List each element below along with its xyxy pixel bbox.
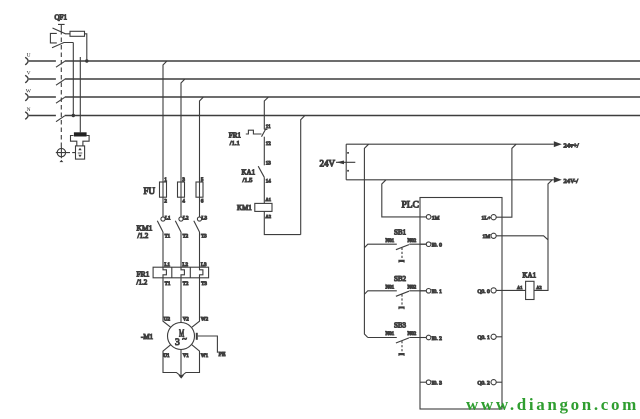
svg-text:V2: V2 (183, 318, 190, 323)
svg-text:W2: W2 (201, 318, 209, 323)
relay contact KA1 (242, 166, 265, 184)
wire PLC 1M right to 24V- return (496, 236, 548, 240)
breaker QF1 pole contact V (56, 79, 65, 85)
svg-text:QF1: QF1 (55, 14, 68, 22)
relay coil KA1 (517, 272, 542, 300)
svg-text:2: 2 (164, 200, 167, 205)
wire from QF1 release box to U line (85, 34, 87, 61)
svg-text:FU: FU (144, 186, 156, 196)
fuse FU label (144, 186, 156, 196)
PLC input terminal I0.2 (420, 335, 442, 342)
svg-text:6: 6 (201, 200, 204, 205)
svg-text:~: ~ (182, 334, 187, 344)
svg-text:KA1: KA1 (242, 169, 256, 177)
svg-text:SB1: SB1 (394, 229, 407, 237)
svg-text:A2: A2 (266, 214, 272, 219)
pushbutton SB1 (364, 229, 426, 263)
svg-text:1L+: 1L+ (482, 216, 491, 222)
svg-text:/1.1: /1.1 (230, 140, 240, 147)
svg-text:N02: N02 (408, 239, 417, 244)
branch 24V+ to PLC 1L+ (496, 144, 516, 217)
power supply 24V (320, 144, 356, 180)
wire from QF1 auxiliary contact to N line (72, 43, 74, 116)
svg-text:I0. 2: I0. 2 (432, 336, 442, 342)
fuse FU pole 1 (160, 178, 168, 205)
branch 24V+ to pushbutton rail (364, 144, 368, 337)
watermark www.diangon.com (466, 395, 639, 414)
wire Q0.0 to KA1 coil (496, 289, 525, 291)
svg-text:V: V (27, 71, 31, 77)
svg-text:N02: N02 (408, 332, 417, 337)
surge arrester body box (76, 146, 85, 159)
svg-text:L1: L1 (165, 217, 171, 222)
svg-text:www.diangon.com: www.diangon.com (466, 395, 639, 414)
svg-text:PLC: PLC (402, 201, 419, 211)
svg-text:SB3: SB3 (394, 322, 407, 330)
motor winding lead U1 (163, 345, 181, 377)
wire FR1 to motor V2 (181, 278, 189, 323)
svg-text:T2: T2 (183, 234, 189, 239)
wire FR1 to motor W2 (192, 278, 209, 327)
wire U phase line (29, 60, 640, 62)
motor M1 (168, 323, 195, 350)
svg-text:-M1: -M1 (141, 333, 154, 341)
contactor KM1 contact pole 3 (194, 217, 208, 240)
svg-text:N01: N01 (386, 239, 395, 244)
svg-text:L2: L2 (182, 263, 188, 268)
svg-text:FR1: FR1 (137, 270, 150, 279)
svg-text:SB2: SB2 (394, 275, 407, 283)
FR1 heater element 3 (200, 263, 208, 287)
svg-text:V1: V1 (183, 354, 190, 359)
svg-text:Q0. 2: Q0. 2 (478, 381, 490, 387)
wire to surge arrester (79, 57, 81, 132)
svg-text:N: N (27, 107, 31, 113)
wire N line to control return (301, 116, 305, 235)
wire KM1 to FR1 pole2 (180, 232, 182, 267)
pushbutton SB3 (368, 322, 427, 356)
pointer below mechanism (60, 160, 64, 162)
PLC box (402, 198, 503, 410)
svg-text:L3: L3 (202, 217, 208, 222)
svg-text:U1: U1 (163, 354, 170, 359)
wire fuse3 to KM1 (199, 197, 201, 217)
svg-text:N01: N01 (386, 332, 395, 337)
breaker QF1 label (55, 14, 68, 22)
branch from W line to control circuit (264, 97, 268, 129)
wire N neutral line (29, 115, 640, 117)
wire 24V+ rail (346, 143, 554, 145)
svg-text:I0. 0: I0. 0 (432, 243, 442, 249)
KM1 coil terminal A1 (266, 197, 272, 202)
svg-text:24V: 24V (320, 159, 336, 169)
svg-text:4: 4 (182, 200, 185, 205)
svg-text:Q0. 1: Q0. 1 (478, 335, 490, 341)
PLC input terminal 1M (426, 215, 439, 222)
svg-text:T2: T2 (183, 282, 189, 287)
fuse FU pole 3 (196, 178, 204, 205)
svg-text:12: 12 (266, 142, 272, 147)
thermal relay FR1 label (137, 270, 150, 287)
branch from U line to fuse 1 (163, 61, 167, 182)
PLC output terminal 1L+ (482, 215, 497, 222)
breaker QF1 pole contact U (56, 61, 65, 67)
svg-text:T1: T1 (165, 282, 171, 287)
motor PE terminal (197, 333, 226, 358)
svg-text:KM1: KM1 (237, 204, 252, 212)
svg-text:U: U (27, 53, 31, 59)
thermal relay FR1 box (153, 267, 209, 278)
svg-text:L2: L2 (183, 217, 189, 222)
svg-text:I0. 3: I0. 3 (432, 381, 442, 387)
PLC input terminal I0.3 (420, 380, 442, 387)
svg-text:1M: 1M (483, 234, 491, 240)
branch 24V- to KA1 return (534, 180, 552, 291)
svg-text:L3: L3 (201, 263, 207, 268)
wire V phase line (29, 78, 640, 80)
node W supply arrow (25, 89, 32, 101)
svg-text:PE: PE (219, 352, 226, 358)
junction dot on N line (72, 114, 75, 117)
svg-text:24V-/: 24V-/ (564, 178, 579, 185)
PLC input terminal I0.1 (420, 289, 442, 296)
svg-text:24v+/: 24v+/ (564, 143, 579, 150)
svg-text:N02: N02 (408, 286, 417, 291)
svg-text:T1: T1 (165, 234, 171, 239)
surge arrester yoke (71, 136, 90, 146)
motor tag -M1 (141, 333, 154, 341)
svg-text:W: W (26, 89, 32, 95)
FR1 NC contact terminal 11 (266, 125, 271, 130)
motor winding lead W1 (181, 345, 208, 377)
breaker QF1 main contact (53, 28, 71, 34)
FR1 heater element 2 (181, 263, 189, 287)
junction dot on U line (85, 59, 88, 62)
wire fuse2 to KM1 (180, 197, 182, 217)
svg-text:/1.2: /1.2 (138, 232, 149, 240)
contactor KM1 contact pole 2 (175, 217, 189, 240)
PLC input terminal I0.0 (420, 242, 442, 249)
svg-text:L1: L1 (164, 263, 170, 268)
wire FR1 to motor U2 (163, 278, 171, 327)
motor winding lead V1 (181, 350, 189, 377)
svg-text:W1: W1 (201, 354, 209, 359)
branch from V line to fuse 2 (181, 79, 185, 182)
node U supply arrow (25, 53, 30, 65)
branch 24V- to PLC 1M input (382, 180, 427, 217)
wire fuse1 to KM1 (162, 197, 164, 217)
breaker QF1 pole contact W (56, 97, 65, 103)
contactor KM1 contact pole 1 (157, 217, 171, 240)
contactor KM1 label (137, 224, 153, 241)
wire KM1 to FR1 pole1 (162, 232, 164, 267)
arrow 24v+ off-page (554, 141, 579, 149)
svg-text:3: 3 (175, 338, 180, 348)
breaker QF1 auxiliary contact (52, 43, 73, 48)
breaker QF1 pole contact N (56, 116, 65, 122)
svg-text:T3: T3 (201, 234, 207, 239)
svg-text:U2: U2 (164, 318, 171, 323)
svg-text:A1: A1 (266, 197, 272, 202)
breaker QF1 trip actuator (58, 24, 65, 30)
svg-text:14: 14 (266, 180, 272, 185)
svg-text:1M: 1M (432, 215, 440, 221)
KM1 coil terminal A2 (266, 214, 272, 219)
svg-text:T3: T3 (201, 282, 207, 287)
svg-text:N01: N01 (386, 286, 395, 291)
PLC output terminal 1M (483, 233, 497, 240)
svg-text:/1.2: /1.2 (137, 279, 148, 287)
wire KA1 contact to KM1 coil (263, 177, 265, 203)
breaker QF1 mechanical linkage dashed (60, 30, 62, 148)
arrow 24V- off-page (554, 177, 578, 185)
breaker QF1 linkage bracket (50, 33, 56, 43)
surge arrester terminal bar (74, 132, 87, 136)
PLC output terminal Q0.0 (478, 288, 497, 295)
PLC output terminal Q0.2 (478, 380, 503, 387)
KA1 NO contact terminal 13 (266, 162, 272, 167)
svg-text:A2: A2 (536, 285, 542, 290)
wire W phase line (29, 96, 640, 98)
pushbutton SB2 (364, 275, 426, 309)
wire FR1 contact to KA1 contact (263, 137, 265, 166)
FR1 heater element 1 (163, 263, 171, 287)
fuse FU pole 2 (178, 178, 186, 205)
star point marker (178, 375, 184, 378)
KA1 NO contact terminal 14 (266, 180, 272, 185)
svg-text:Q0. 0: Q0. 0 (478, 289, 490, 295)
node V supply arrow (25, 71, 30, 83)
branch from W line to fuse 3 (200, 97, 204, 182)
svg-text:FR1: FR1 (229, 131, 242, 139)
dashed link circle to arrester (67, 152, 76, 154)
wire KM1 coil to N return (264, 211, 300, 234)
svg-text:13: 13 (266, 162, 272, 167)
contactor coil KM1 (237, 203, 272, 212)
wire KM1 to FR1 pole3 (199, 232, 201, 267)
wire 24V- rail (346, 179, 554, 181)
QF1 operating mechanism circle (56, 147, 67, 158)
breaker QF1 release box (70, 31, 85, 36)
svg-text:KA1: KA1 (523, 272, 537, 280)
svg-text:A1: A1 (517, 285, 523, 290)
svg-text:/1.5: /1.5 (243, 177, 253, 184)
FR1 NC contact terminal 12 (266, 142, 272, 147)
svg-text:I0. 1: I0. 1 (432, 289, 442, 295)
PLC output terminal Q0.1 (478, 334, 503, 341)
node N neutral arrow (25, 107, 30, 119)
thermal relay FR1 control contact (229, 129, 268, 148)
